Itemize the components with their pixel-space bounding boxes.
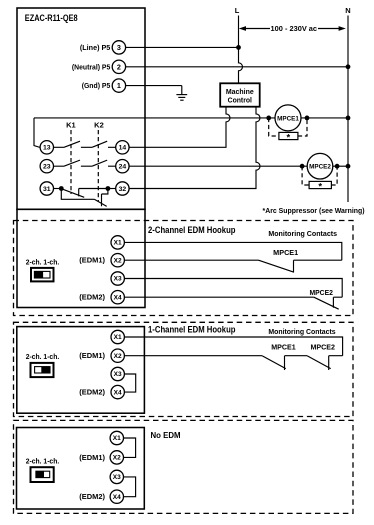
junction dot 32 xyxy=(106,186,111,191)
wire L vertical with hop xyxy=(239,16,243,84)
switch DIP C (2-ch position) xyxy=(31,467,54,482)
section 2-Channel EDM Hookup dashed border xyxy=(14,221,354,316)
terminal 32 xyxy=(116,182,129,195)
svg-text:24: 24 xyxy=(119,164,127,171)
K1 actuator dashed line xyxy=(70,130,72,194)
svg-text:L: L xyxy=(235,6,240,15)
terminal X2 C xyxy=(110,451,123,464)
switch DIP B (1-ch position) xyxy=(31,363,54,377)
svg-text:EZAC-R11-QE8: EZAC-R11-QE8 xyxy=(25,13,78,23)
aux contact K1 row 31-32 xyxy=(61,189,108,198)
svg-text:X4: X4 xyxy=(113,494,122,501)
wire terminal3 to L xyxy=(126,46,239,48)
contact MPCE1 B xyxy=(262,356,307,370)
wire X1 loop B xyxy=(124,337,342,356)
svg-text:(Line) P5: (Line) P5 xyxy=(80,43,110,52)
svg-text:X1: X1 xyxy=(114,240,123,247)
svg-text:K2: K2 xyxy=(94,121,104,130)
terminal X2 B xyxy=(111,349,124,362)
svg-text:X1: X1 xyxy=(114,334,123,341)
svg-text:*: * xyxy=(287,132,291,143)
label 100 - 230V ac with arrows xyxy=(239,26,346,33)
main device box EZAC-R11-QE8 xyxy=(17,8,145,209)
junction dot L line xyxy=(236,45,241,50)
wire MC left lead to terminal 14 (with hop) xyxy=(129,107,230,148)
motor MPCE1 xyxy=(275,105,301,131)
svg-text:(EDM2): (EDM2) xyxy=(79,295,105,302)
switch DIP A (2-ch position) xyxy=(31,268,54,282)
svg-text:1-Channel EDM Hookup: 1-Channel EDM Hookup xyxy=(148,324,236,334)
terminal X4 C xyxy=(110,490,123,503)
terminal 23 xyxy=(40,160,53,173)
terminal 13 xyxy=(40,141,53,154)
svg-text:(EDM1): (EDM1) xyxy=(79,258,105,265)
section A device box xyxy=(17,209,145,307)
terminal X2 A xyxy=(111,254,124,267)
svg-text:3: 3 xyxy=(117,43,121,52)
svg-text:Monitoring Contacts: Monitoring Contacts xyxy=(268,327,335,336)
svg-text:(EDM1): (EDM1) xyxy=(79,455,105,462)
svg-text:X1: X1 xyxy=(113,435,122,442)
svg-text:13: 13 xyxy=(43,145,51,152)
wire X3-X4 jumper C xyxy=(124,477,136,497)
svg-text:MPCE2: MPCE2 xyxy=(309,288,333,297)
contact MPCE2 B xyxy=(307,356,343,370)
terminal 14 xyxy=(116,141,129,154)
junction dot N end xyxy=(346,164,351,169)
svg-text:X4: X4 xyxy=(114,389,123,396)
terminal X3 C xyxy=(110,470,123,483)
terminal X1 C xyxy=(110,431,123,444)
wire X4 A xyxy=(124,296,314,298)
motor MPCE2 xyxy=(307,153,333,179)
svg-text:2-Channel EDM Hookup: 2-Channel EDM Hookup xyxy=(148,225,236,235)
svg-text:32: 32 xyxy=(119,186,127,193)
section C device box xyxy=(17,428,145,510)
svg-text:X3: X3 xyxy=(114,371,123,378)
junction dot N wire2 xyxy=(346,64,351,69)
svg-text:2-ch. 1-ch.: 2-ch. 1-ch. xyxy=(26,259,59,266)
wire terminal24 to MPCE2 xyxy=(129,165,307,167)
wire MPCE1 row left xyxy=(34,117,275,119)
svg-text:MPCE2: MPCE2 xyxy=(310,343,335,352)
svg-text:X3: X3 xyxy=(113,474,122,481)
wire MPCE2 to N xyxy=(333,165,348,167)
K2 actuator dashed line xyxy=(97,130,99,202)
contact K1 row 13-14 xyxy=(54,141,93,147)
wire 31 stub xyxy=(54,188,62,190)
svg-text:100 - 230V ac: 100 - 230V ac xyxy=(271,26,318,33)
wire 32 stub xyxy=(108,188,116,190)
Machine Control box xyxy=(220,83,260,106)
section 1-Channel EDM Hookup dashed border xyxy=(14,322,354,416)
terminal X1 B xyxy=(111,330,124,343)
wire X1-X2 jumper C xyxy=(124,438,136,457)
arc suppressor 2 dashed leads xyxy=(302,166,337,185)
svg-text:(Neutral) P5: (Neutral) P5 xyxy=(72,62,110,71)
arc suppressor 2 resistor xyxy=(309,181,331,188)
arc suppressor 1 resistor xyxy=(279,132,298,139)
wire N vertical xyxy=(347,16,349,203)
junction dot N MPCE1 row xyxy=(346,116,351,121)
svg-text:(EDM1): (EDM1) xyxy=(79,353,105,360)
svg-text:14: 14 xyxy=(119,145,127,152)
contact K1 row 23-24 xyxy=(54,160,93,166)
svg-text:No EDM: No EDM xyxy=(151,430,181,440)
svg-text:N: N xyxy=(345,6,350,15)
wire X3 loop A xyxy=(124,279,342,298)
contact K2 row 13-14 xyxy=(92,141,116,147)
svg-text:Monitoring Contacts: Monitoring Contacts xyxy=(268,229,337,238)
wire MPCE1 to N xyxy=(301,117,348,119)
junction dot MPCE2 right xyxy=(335,164,340,169)
section No EDM dashed border xyxy=(14,420,354,513)
terminal 31 xyxy=(40,182,53,195)
svg-text:(Gnd) P5: (Gnd) P5 xyxy=(82,81,111,90)
wire X2 A xyxy=(124,259,258,261)
terminal 24 xyxy=(116,160,129,173)
ground xyxy=(176,86,187,101)
junction dot MPCE1 right xyxy=(305,116,310,121)
contact MPCE2 A xyxy=(314,297,342,309)
svg-text:MPCE2: MPCE2 xyxy=(309,164,331,171)
svg-text:Control: Control xyxy=(228,95,252,104)
arc suppressor 1 dashed leads xyxy=(269,118,307,136)
terminal X1 A xyxy=(111,236,124,249)
wire X3-X4 jumper B xyxy=(124,374,136,392)
svg-text:X4: X4 xyxy=(114,294,123,301)
svg-text:X2: X2 xyxy=(113,455,122,462)
section B device box xyxy=(17,327,145,414)
terminal X3 B xyxy=(111,367,124,380)
svg-text:2: 2 xyxy=(117,62,121,71)
aux contact K2 row 31-32 lower path xyxy=(61,189,108,207)
svg-text:31: 31 xyxy=(43,186,51,193)
svg-text:(EDM2): (EDM2) xyxy=(79,389,105,396)
wire terminal1 to ground xyxy=(126,85,182,87)
svg-text:*Arc Suppressor (see Warning): *Arc Suppressor (see Warning) xyxy=(263,206,366,215)
wire X1 loop A xyxy=(124,242,341,260)
terminal X4 B xyxy=(111,385,124,398)
junction dot 31 xyxy=(59,186,64,191)
svg-text:MPCE1: MPCE1 xyxy=(271,343,296,352)
svg-text:K1: K1 xyxy=(66,121,76,130)
junction dot MPCE2 left xyxy=(300,164,305,169)
wire MC right lead to terminal 32 (with hops) xyxy=(129,107,260,189)
svg-text:2-ch. 1-ch.: 2-ch. 1-ch. xyxy=(26,458,59,465)
svg-text:(EDM2): (EDM2) xyxy=(79,494,105,501)
contact K2 row 23-24 xyxy=(92,160,116,166)
svg-text:1: 1 xyxy=(117,81,121,90)
junction dot MPCE1 left xyxy=(266,116,271,121)
svg-text:23: 23 xyxy=(43,164,51,171)
contact MPCE1 A xyxy=(259,260,342,272)
svg-text:2-ch. 1-ch.: 2-ch. 1-ch. xyxy=(26,354,59,361)
svg-text:X3: X3 xyxy=(114,276,123,283)
wire terminal2 to N xyxy=(126,66,348,68)
terminal X3 A xyxy=(111,272,124,285)
svg-text:X2: X2 xyxy=(114,353,123,360)
wire X2 B xyxy=(124,355,262,357)
wire terminal13 riser to MPCE1 row xyxy=(34,118,40,148)
svg-text:MPCE1: MPCE1 xyxy=(277,115,299,122)
svg-text:*: * xyxy=(318,181,322,192)
svg-text:MPCE1: MPCE1 xyxy=(273,248,298,257)
svg-text:X2: X2 xyxy=(114,257,123,264)
terminal X4 A xyxy=(111,291,124,304)
